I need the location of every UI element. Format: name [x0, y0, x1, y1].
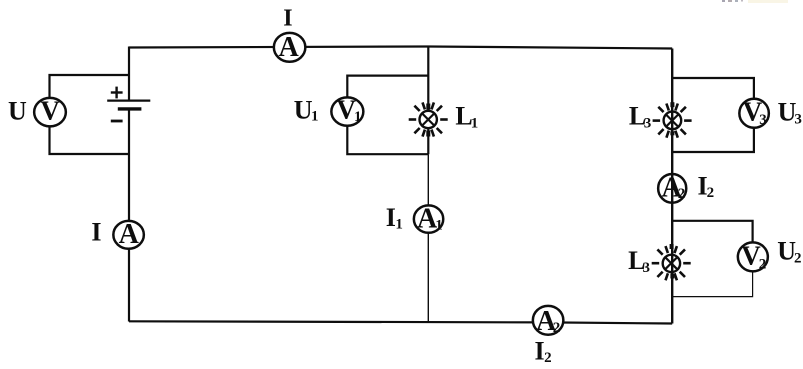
scan smudge top edge — [722, 0, 788, 3]
wire: left vertical from battery - plate down to bottom wire — [128, 109, 130, 322]
voltmeter V (measures U, across battery) — [34, 95, 66, 126]
ammeter A (left, measures I) — [113, 219, 144, 250]
wire: voltmeter V2 parallel loop lower (thin) — [672, 250, 752, 297]
ammeter A (top, measures I) — [274, 32, 306, 63]
lamp L3 (upper right, wire passes through) — [653, 102, 692, 138]
voltmeter V3 (measures U3) — [739, 97, 769, 128]
svg-text:U: U — [8, 96, 27, 125]
lamp L1 — [409, 102, 448, 136]
svg-text:A: A — [279, 32, 300, 63]
wire: voltmeter V3 parallel loop — [672, 78, 754, 152]
svg-text:I: I — [91, 218, 101, 247]
ammeter A2 (right branch, measures I2, wire crosses it) — [658, 172, 686, 203]
ammeter A1 (measures I1) — [414, 203, 443, 234]
wire: bottom horizontal from left branch to right branch — [129, 321, 672, 323]
svg-text:A: A — [119, 219, 140, 250]
wire: voltmeter U parallel loop — [50, 75, 130, 154]
ammeter A2 (bottom, measures I2) — [533, 306, 564, 337]
battery B (cell) — [107, 87, 150, 121]
wire: middle vertical lower (through ammeter A1 to bottom wire) — [427, 154, 429, 321]
lamp L3 (lower right, wire passes through) — [652, 244, 691, 280]
wire: middle vertical upper (through lamp L1) — [427, 47, 429, 155]
voltmeter V1 (measures U1) — [331, 94, 363, 125]
wire: top horizontal from battery node to right branch — [129, 47, 672, 49]
voltmeter V2 (measures U2) — [738, 240, 768, 272]
svg-text:I: I — [283, 6, 292, 32]
wire: left vertical from top wire down to battery + plate — [128, 47, 130, 101]
wire: right vertical branch — [671, 49, 673, 324]
wire: voltmeter V1 parallel loop — [347, 76, 428, 155]
svg-text:V: V — [40, 95, 60, 125]
svg-text:A2: A2 — [662, 172, 686, 203]
wire: voltmeter V2 parallel loop upper — [672, 221, 752, 250]
